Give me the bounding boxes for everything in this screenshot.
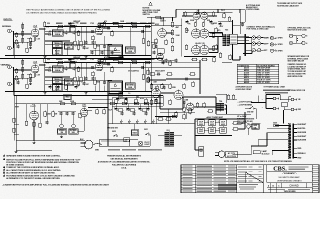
svg-text:A GROUND STRAP: A GROUND STRAP bbox=[236, 88, 253, 91]
svg-text:+ LOOP REVERB: + LOOP REVERB bbox=[238, 104, 253, 106]
svg-text:SLO-BLO: SLO-BLO bbox=[262, 154, 271, 156]
svg-text:SW: SW bbox=[76, 23, 79, 25]
svg-text:CBS MUSICAL INSTRUMENTS: CBS MUSICAL INSTRUMENTS bbox=[110, 158, 138, 161]
svg-text:TONER BY THE CONTROLS INDICATE: TONER BY THE CONTROLS INDICATED ON PANEL… bbox=[6, 166, 60, 169]
svg-text:250KA: 250KA bbox=[55, 69, 61, 72]
svg-text:SW2: SW2 bbox=[112, 131, 116, 133]
svg-text:CHAND: CHAND bbox=[289, 184, 298, 188]
svg-text:A DIVISION OF COLUMBIA BROADCA: A DIVISION OF COLUMBIA BROADCASTING SYST… bbox=[98, 161, 151, 164]
svg-text:V4 12AT7A: V4 12AT7A bbox=[128, 70, 139, 73]
svg-text:60 CYCLES: 60 CYCLES bbox=[227, 156, 237, 158]
svg-text:BASS: BASS bbox=[55, 85, 61, 88]
svg-text:13: 13 bbox=[272, 185, 274, 187]
svg-text:ALL CAPACITORS IN MICROFARADS,: ALL CAPACITORS IN MICROFARADS, N.O.D. 60… bbox=[6, 169, 61, 172]
svg-text:THE PRODUCT ADVERTISING COVERE: THE PRODUCT ADVERTISING COVERED ONE OR M… bbox=[26, 8, 110, 11]
svg-text:8: 8 bbox=[306, 36, 307, 38]
svg-text:EXT.: EXT. bbox=[264, 50, 268, 52]
svg-text:170: 170 bbox=[46, 63, 49, 65]
svg-text:AA165: AA165 bbox=[244, 81, 249, 84]
svg-text:SPKR: SPKR bbox=[278, 38, 284, 40]
svg-text:IN SOME CHASSIS.: IN SOME CHASSIS. bbox=[6, 163, 24, 166]
svg-text:100K: 100K bbox=[128, 51, 133, 53]
svg-text:470: 470 bbox=[104, 20, 107, 23]
svg-text:250: 250 bbox=[47, 23, 50, 25]
svg-text:250K: 250K bbox=[55, 53, 60, 55]
svg-text:ST POWER LEGAL CHAR: ST POWER LEGAL CHAR bbox=[264, 86, 286, 89]
svg-text:BLK/GRN: BLK/GRN bbox=[298, 140, 307, 142]
svg-text:250K: 250K bbox=[55, 82, 60, 84]
svg-text:T56: T56 bbox=[219, 101, 222, 103]
svg-text:BLK/WHT: BLK/WHT bbox=[298, 124, 308, 126]
svg-text:6800: 6800 bbox=[97, 82, 101, 84]
svg-text:250K: 250K bbox=[55, 46, 60, 48]
svg-text:VIBRATO: VIBRATO bbox=[1, 64, 11, 67]
svg-text:12AT7: 12AT7 bbox=[30, 105, 37, 108]
svg-text:250KA: 250KA bbox=[55, 33, 61, 36]
svg-text:CH1: CH1 bbox=[166, 130, 169, 132]
svg-text:.01: .01 bbox=[120, 93, 122, 95]
svg-text:TREM: TREM bbox=[65, 97, 70, 99]
svg-text:ALTERNATELY TO-THE INPUT SIGNA: ALTERNATELY TO-THE INPUT SIGNAL GROUND R… bbox=[6, 177, 60, 180]
svg-text:FENDER MUSICAL INSTRUMENTS: FENDER MUSICAL INSTRUMENTS bbox=[107, 155, 141, 158]
svg-text:250: 250 bbox=[47, 59, 50, 61]
svg-text:BLK/WHT: BLK/WHT bbox=[298, 136, 308, 138]
svg-text:FULLERTON, CALIFORNIA: FULLERTON, CALIFORNIA bbox=[112, 164, 137, 167]
svg-text:100 WATTS RMS AMP: 100 WATTS RMS AMP bbox=[278, 176, 300, 179]
svg-text:SPKR: SPKR bbox=[278, 50, 284, 52]
svg-text:170: 170 bbox=[46, 27, 49, 29]
svg-text:6L6GC (2): 6L6GC (2) bbox=[195, 43, 205, 45]
svg-text:U.S. PATENTS 2817708 2973681 2: U.S. PATENTS 2817708 2973681 2968205 321… bbox=[26, 11, 98, 14]
svg-text:.02: .02 bbox=[48, 67, 51, 69]
svg-text:NORMAL: NORMAL bbox=[2, 25, 12, 28]
svg-text:V8A 12AT7: V8A 12AT7 bbox=[155, 70, 165, 73]
svg-text:ONLY (SEE PG 42): ONLY (SEE PG 42) bbox=[237, 120, 253, 123]
svg-text:20uF: 20uF bbox=[108, 110, 112, 112]
svg-text:SPKR: SPKR bbox=[278, 44, 284, 46]
svg-text:CU-1: CU-1 bbox=[221, 10, 225, 12]
svg-text:SW1: SW1 bbox=[144, 129, 148, 131]
svg-text:BLK/YEL: BLK/YEL bbox=[298, 128, 307, 130]
svg-text:--A WAVEFORM PHOTOS WITH AMPLI: --A WAVEFORM PHOTOS WITH AMPLIFIER AT FU… bbox=[2, 184, 110, 187]
svg-text:100K: 100K bbox=[176, 35, 181, 37]
svg-text:6800: 6800 bbox=[97, 46, 101, 48]
svg-text:FOR TOTAL 4 OHM LOAD: FOR TOTAL 4 OHM LOAD bbox=[247, 27, 270, 30]
svg-text:ALL RESISTORS IN WATT 1/2 WATT: ALL RESISTORS IN WATT 1/2 WATT UNLESS NO… bbox=[6, 172, 56, 175]
svg-text:SEPARATE WIRE IN SAME TWISTING: SEPARATE WIRE IN SAME TWISTING FOR HUM C… bbox=[6, 155, 61, 158]
svg-text:+ LOOP FOOTSW: + LOOP FOOTSW bbox=[238, 101, 253, 103]
svg-text:GROUND SW: GROUND SW bbox=[107, 128, 118, 130]
svg-text:NECTION 8 OHM LOAD: NECTION 8 OHM LOAD bbox=[288, 28, 308, 31]
svg-text:W/REVERB AND VIBRATO: W/REVERB AND VIBRATO bbox=[277, 179, 302, 182]
svg-text:TWO 12" 8 SPK: TWO 12" 8 SPK bbox=[257, 82, 270, 84]
svg-text:TWIN REVERB: TWIN REVERB bbox=[284, 191, 297, 193]
svg-text:4M7: 4M7 bbox=[176, 26, 179, 29]
svg-text:+450V POWER AMP: +450V POWER AMP bbox=[206, 116, 224, 119]
svg-text:T55: T55 bbox=[225, 30, 228, 32]
svg-text:2M2: 2M2 bbox=[59, 101, 62, 103]
svg-text:220K: 220K bbox=[47, 113, 52, 115]
svg-text:BLK/GRN: BLK/GRN bbox=[298, 132, 307, 134]
svg-text:SEE CHART BELOW: SEE CHART BELOW bbox=[288, 60, 305, 63]
svg-text:100K: 100K bbox=[128, 87, 133, 89]
svg-text:1M: 1M bbox=[55, 113, 58, 115]
svg-text:U.S.A.: U.S.A. bbox=[121, 167, 127, 170]
svg-text:SWITCH: SWITCH bbox=[143, 14, 151, 16]
svg-text:GND SW: GND SW bbox=[247, 112, 254, 114]
svg-text:~"SCHEMATIC"~: ~"SCHEMATIC"~ bbox=[282, 172, 298, 175]
svg-text:250K: 250K bbox=[55, 89, 60, 91]
svg-text:RED/BLU: RED/BLU bbox=[298, 153, 307, 155]
svg-text:NOTE: VOLTAGES NOTED ALL JCP 2: NOTE: VOLTAGES NOTED ALL JCP 2000 OHM U.… bbox=[224, 160, 292, 163]
svg-text:BASS: BASS bbox=[55, 49, 61, 52]
svg-text:1.0: 1.0 bbox=[128, 93, 130, 95]
svg-text:.02: .02 bbox=[48, 31, 51, 33]
